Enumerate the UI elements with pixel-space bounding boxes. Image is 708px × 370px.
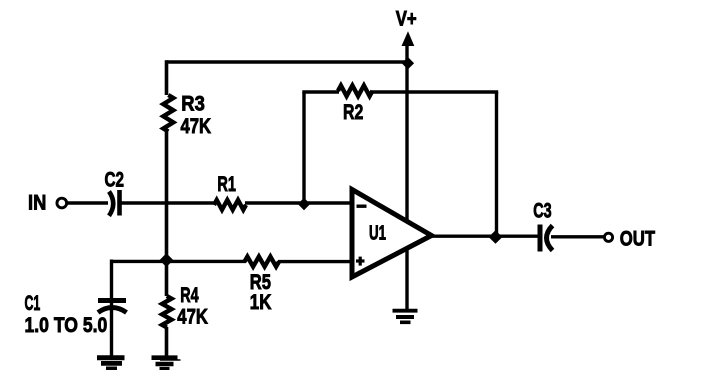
pin label: inverting input minus sign	[357, 204, 367, 207]
svg-text:47K: 47K	[181, 115, 212, 138]
pin label: non-inverting input plus sign	[356, 257, 365, 266]
wire: IN terminal to C2	[67, 201, 108, 204]
svg-text:C2: C2	[105, 168, 125, 191]
resistor R4	[162, 296, 171, 328]
svg-text:C3: C3	[533, 200, 551, 223]
label C1	[25, 292, 41, 315]
node: junction of R4, R5, C1 branch	[160, 253, 174, 267]
wire: R2 left vertical	[302, 92, 305, 203]
op-amp U1	[352, 190, 432, 278]
resistor R2	[338, 86, 373, 97]
label 47K (R3 value)	[181, 115, 212, 138]
node: V+ supply junction	[402, 57, 414, 69]
label OUT	[620, 228, 655, 251]
svg-text:1.0 TO 5.0: 1.0 TO 5.0	[25, 314, 108, 337]
wire: R2 top left segment	[302, 90, 339, 93]
capacitor C1	[98, 301, 127, 313]
label R5	[250, 271, 271, 294]
label C3	[533, 200, 551, 223]
label 1K (R5 value)	[250, 291, 272, 314]
label R4	[180, 284, 199, 307]
ground below op-amp	[393, 311, 418, 323]
wire: C2 to R1 across left vertical branch	[120, 201, 216, 204]
label V+	[396, 7, 417, 30]
svg-text:U1: U1	[369, 222, 386, 244]
wire: C3 to OUT terminal	[551, 235, 604, 238]
input terminal circle	[57, 198, 67, 208]
wire: R4 bottom to ground	[165, 327, 169, 357]
svg-text:1K: 1K	[250, 291, 272, 314]
ground under R4	[152, 358, 181, 369]
resistor R3	[163, 95, 173, 132]
label R2	[343, 101, 363, 124]
svg-text:47K: 47K	[177, 305, 208, 328]
ground under C1	[97, 358, 125, 369]
wire: left vertical R3 branch upper segment	[165, 60, 169, 95]
svg-text:R2: R2	[343, 101, 363, 124]
resistor R1	[214, 200, 246, 210]
label IN	[28, 191, 46, 214]
svg-text:OUT: OUT	[620, 228, 655, 251]
wire: lower branch horizontal left of R5	[112, 260, 247, 263]
label R1	[217, 173, 236, 196]
capacitor C3	[540, 225, 553, 252]
svg-text:R3: R3	[181, 93, 205, 116]
svg-text:R1: R1	[217, 173, 236, 196]
label C2	[105, 168, 125, 191]
wire: R2 top right segment	[372, 90, 499, 93]
capacitor C2	[109, 190, 120, 216]
wire: R1 to op-amp inverting input	[245, 201, 352, 204]
wire: R5 to op-amp non-inverting input	[278, 260, 352, 263]
svg-text:R4: R4	[180, 284, 199, 307]
svg-text:C1: C1	[25, 292, 41, 315]
wire: op-amp output to C3	[430, 234, 538, 237]
resistor R5	[245, 257, 280, 267]
wire: left vertical between R3 and R4 through input crossing	[165, 131, 169, 296]
label R3	[181, 93, 205, 116]
label 47K (R4 value)	[177, 305, 208, 328]
node: output junction with R2 feedback	[489, 230, 503, 244]
node: junction of R1, R2 and inverting input	[298, 198, 310, 210]
svg-text:V+: V+	[396, 7, 417, 30]
wire: top supply bus from R3 top to V+ node	[167, 60, 408, 64]
wire: R2 right vertical down to output node	[495, 92, 498, 236]
power symbol V+ arrow	[402, 31, 415, 46]
wire: V+ vertical rail down through op-amp region to ground	[405, 42, 408, 310]
label 1.0 TO 5.0 (C1 value)	[25, 314, 108, 337]
wire: C1 branch vertical down from lower bus	[110, 260, 113, 358]
svg-text:IN: IN	[28, 191, 46, 214]
label U1	[369, 222, 386, 244]
output terminal circle	[604, 233, 612, 241]
